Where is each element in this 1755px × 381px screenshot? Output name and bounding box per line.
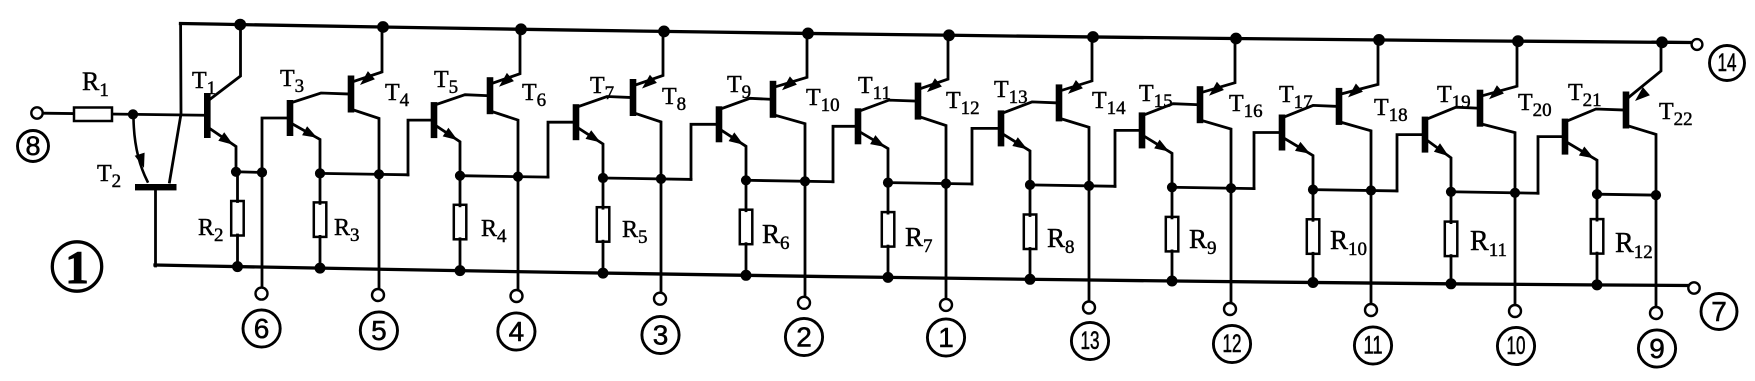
svg-text:10: 10 bbox=[1507, 332, 1526, 360]
svg-text:6: 6 bbox=[254, 313, 270, 344]
svg-text:12: 12 bbox=[1223, 330, 1242, 358]
svg-text:4: 4 bbox=[509, 316, 525, 347]
svg-text:9: 9 bbox=[1649, 333, 1665, 364]
svg-text:11: 11 bbox=[1364, 332, 1383, 360]
svg-text:1: 1 bbox=[938, 322, 954, 353]
svg-text:13: 13 bbox=[1081, 327, 1100, 355]
svg-text:14: 14 bbox=[1718, 49, 1737, 77]
svg-text:3: 3 bbox=[653, 320, 669, 351]
svg-text:7: 7 bbox=[1711, 296, 1727, 327]
svg-text:8: 8 bbox=[25, 131, 40, 161]
svg-text:5: 5 bbox=[371, 315, 387, 346]
svg-text:2: 2 bbox=[796, 322, 812, 353]
svg-text:1: 1 bbox=[65, 242, 89, 294]
